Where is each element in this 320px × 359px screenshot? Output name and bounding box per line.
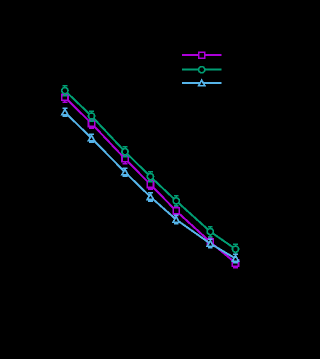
series S1 square markers: [62, 94, 239, 266]
series S3 blue triangles: error bars: [63, 108, 238, 263]
legend entry 2: green line: [182, 69, 222, 71]
legend entry 3: blue triangle marker: [199, 80, 205, 86]
series S2 circle markers: [62, 88, 239, 253]
legend entry 1: purple square marker: [199, 52, 205, 58]
series S3 blue line: [65, 112, 236, 258]
legend entry 2: green circle marker: [199, 67, 205, 73]
series S2 green line: [65, 91, 236, 250]
series S2 green circles: error bars: [63, 86, 238, 255]
series S1 purple line: [65, 97, 236, 263]
series S1 purple squares: error bars: [63, 93, 238, 268]
legend entry 3: blue line: [182, 82, 222, 84]
series S3 triangle markers: [62, 109, 239, 261]
legend entry 1: purple line: [182, 54, 222, 56]
